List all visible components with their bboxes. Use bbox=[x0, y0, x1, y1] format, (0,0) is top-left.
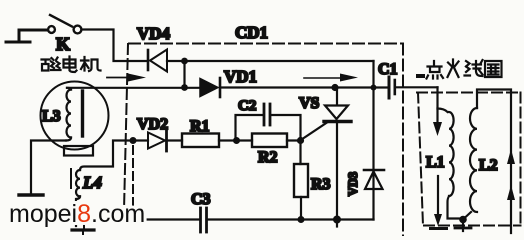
wire R2 to node bbox=[287, 139, 301, 141]
wire L3 to VD1 bbox=[67, 87, 200, 89]
svg-text:VS: VS bbox=[299, 95, 320, 112]
bottom rail bbox=[84, 218, 199, 220]
diode VD1 bbox=[200, 79, 218, 97]
svg-text:CD1: CD1 bbox=[235, 23, 268, 42]
svg-text:R1: R1 bbox=[190, 118, 210, 135]
ground (kill switch) bbox=[6, 30, 47, 42]
node junction coil common bbox=[459, 216, 467, 224]
wire L3 to ground bbox=[31, 141, 66, 194]
ground (coil L1) bbox=[431, 227, 447, 230]
coil L4 bbox=[76, 170, 80, 196]
svg-text:C2: C2 bbox=[238, 98, 256, 114]
CDI box dashed bbox=[129, 43, 403, 45]
wire trigger node bbox=[80, 141, 133, 171]
diode VD4 bbox=[147, 50, 150, 70]
node junction C1 bbox=[371, 85, 377, 91]
svg-text:VD2: VD2 bbox=[137, 116, 168, 133]
wire VD1 to C1 bbox=[220, 86, 388, 88]
svg-text:R3: R3 bbox=[311, 176, 331, 193]
coil L1 bbox=[449, 112, 454, 196]
svg-text:VD1: VD1 bbox=[224, 67, 257, 86]
label 点火线圈 (hand drawn) bbox=[427, 60, 502, 79]
svg-text:VD3: VD3 bbox=[346, 172, 360, 196]
wire C1 to coil bbox=[396, 86, 438, 88]
wire L1 bottom bbox=[448, 196, 464, 218]
node junction VD2 in bbox=[130, 137, 137, 144]
ignition coil box dashed bbox=[417, 92, 521, 94]
node junction VD1 in bbox=[181, 84, 188, 91]
svg-text:C3: C3 bbox=[191, 191, 211, 208]
svg-text:K: K bbox=[56, 34, 70, 54]
wire junction down bbox=[183, 61, 185, 88]
node junction RC left bbox=[233, 137, 240, 144]
wire C2 branch left bbox=[236, 115, 263, 141]
resistor R2 bbox=[252, 134, 287, 148]
gate wire bbox=[302, 123, 328, 140]
wire VD2 to R1 bbox=[167, 139, 183, 141]
ground (L4 / C3 rail) bbox=[72, 228, 94, 231]
svg-text:VD4: VD4 bbox=[137, 24, 171, 43]
wire C2 branch right bbox=[272, 115, 301, 141]
ground (coil common) bbox=[462, 220, 464, 232]
wire into coil L1 bbox=[436, 87, 438, 122]
capacitor C3 bbox=[199, 208, 202, 232]
node junction RC right bbox=[297, 137, 304, 144]
svg-text:R2: R2 bbox=[258, 149, 278, 166]
wire hook to L1 bbox=[438, 109, 448, 113]
svg-text:L1: L1 bbox=[426, 154, 445, 171]
capacitor C2 bbox=[263, 104, 266, 125]
arrow down annotation bbox=[433, 122, 442, 136]
arrow current annotation left bbox=[107, 77, 128, 79]
wire L2 bottom bbox=[464, 212, 471, 219]
wire node to R3 bbox=[299, 141, 301, 165]
node junction VS anode bbox=[331, 84, 338, 91]
vertical bus wire bbox=[372, 61, 374, 220]
label bullet bbox=[416, 74, 425, 78]
core bar L4 bbox=[70, 169, 72, 188]
coil L2 bbox=[470, 108, 477, 212]
switch K bbox=[48, 26, 55, 33]
svg-text:mopei8.com: mopei8.com bbox=[9, 200, 145, 228]
svg-text:L3: L3 bbox=[42, 108, 61, 125]
svg-text:L2: L2 bbox=[479, 157, 498, 174]
coil L3 bbox=[67, 90, 72, 138]
magneto circle bbox=[41, 82, 109, 150]
diode VD3 bbox=[364, 169, 384, 172]
resistor R1 bbox=[182, 134, 219, 148]
wire L2 top HV out bbox=[477, 90, 511, 234]
bottom rail right bbox=[208, 218, 374, 220]
resistor R3 bbox=[294, 164, 308, 197]
diode VD2 bbox=[148, 133, 165, 149]
wire R3 to rail bbox=[300, 197, 302, 220]
wire VD4 to corner bbox=[167, 60, 374, 62]
node junction R3 rail bbox=[298, 216, 305, 223]
ground (magneto) bbox=[19, 193, 43, 196]
thyristor VS bbox=[336, 88, 338, 106]
wire L1 return ground bbox=[437, 176, 439, 216]
svg-text:L4: L4 bbox=[82, 173, 102, 192]
wire node to VD2 bbox=[133, 139, 148, 141]
magnet shoe bbox=[64, 146, 93, 156]
wire bbox=[19, 29, 47, 31]
svg-text:C1: C1 bbox=[378, 61, 398, 78]
arrow up annotation 2 bbox=[507, 185, 515, 200]
node junction VD4 out bbox=[181, 58, 188, 65]
wire R1 to node bbox=[219, 139, 252, 141]
arrow current annotation top bbox=[304, 77, 340, 79]
node junction VS rail bbox=[333, 216, 341, 224]
watermark mopei8.com bbox=[9, 200, 145, 228]
label 磁电机 (hand drawn) bbox=[42, 57, 101, 73]
core bar L3 bbox=[81, 91, 84, 136]
wire switch to VD4 bbox=[82, 30, 148, 62]
capacitor C1 bbox=[388, 77, 391, 98]
dashed inner line bbox=[132, 146, 134, 210]
arrow up annotation 1 bbox=[507, 149, 515, 164]
